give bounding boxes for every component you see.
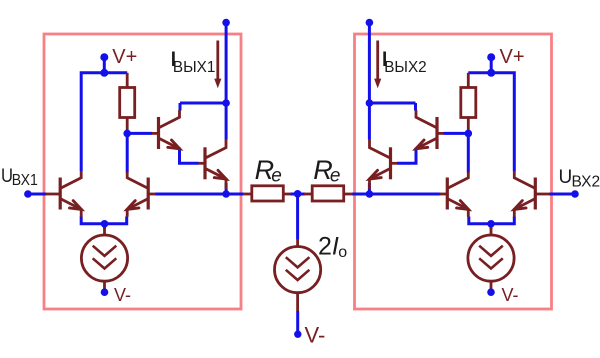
svg-text:o: o [338, 244, 347, 261]
svg-text:V-: V- [305, 323, 326, 348]
svg-text:ВХ1: ВХ1 [12, 172, 38, 189]
svg-text:V-: V- [502, 285, 519, 305]
svg-text:V+: V+ [500, 46, 525, 68]
svg-text:U: U [559, 167, 573, 188]
svg-text:ВЫХ2: ВЫХ2 [384, 59, 427, 76]
svg-text:V+: V+ [112, 46, 137, 68]
svg-text:2I: 2I [318, 232, 339, 260]
svg-text:e: e [330, 165, 341, 186]
svg-text:ВЫХ1: ВЫХ1 [173, 59, 216, 76]
svg-text:V-: V- [114, 285, 131, 305]
svg-text:e: e [271, 165, 282, 186]
svg-text:ВХ2: ВХ2 [572, 174, 600, 191]
